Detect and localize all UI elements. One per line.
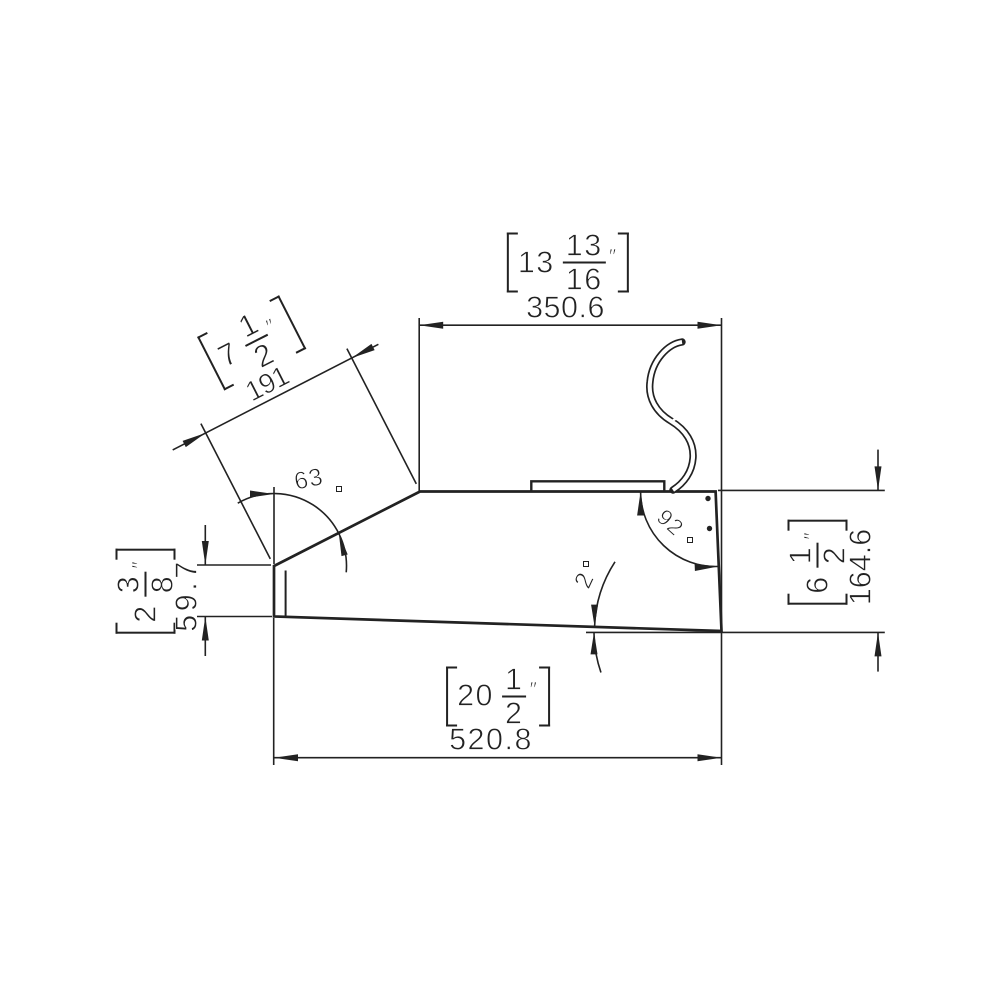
- bottom dimension line 520.8: [274, 757, 722, 759]
- 2 degree label: [569, 568, 600, 592]
- right dimension value 164.6: [843, 529, 878, 605]
- bottom dimension bracket text [20 1/2 in]: [446, 666, 550, 731]
- 63 deg vertical reference ray: [273, 487, 275, 564]
- right dimension bracket text [6 1/2 in]: [787, 519, 852, 604]
- left dim upper extension line: [197, 564, 271, 566]
- top dim left extension line: [418, 318, 420, 491]
- 92 deg arrow at right edge: [695, 564, 719, 571]
- 92 deg arrow at top edge: [637, 492, 644, 516]
- right dim lower extension line / 2 deg reference line: [586, 631, 885, 633]
- left dimension line upper segment: [204, 525, 206, 565]
- right dimension line upper segment: [877, 450, 879, 491]
- screw hole 2: [707, 526, 712, 531]
- right dimension line lower segment: [877, 632, 879, 671]
- diagonal dimension line 191: [173, 344, 379, 450]
- 63 deg arc: [238, 493, 347, 572]
- top dimension value 350.6: [526, 291, 605, 326]
- 92 deg arc: [641, 492, 719, 567]
- left dimension value 59.7: [169, 558, 204, 631]
- top dim right arrow: [698, 322, 722, 329]
- top dimension bracket text [13 13/16 in]: [507, 233, 629, 298]
- 2 deg lower arrow: [591, 632, 598, 654]
- arrowheads: [183, 322, 882, 762]
- bottom dim left arrow: [274, 754, 298, 761]
- right dim lower arrow: [875, 632, 882, 656]
- angle arcs: [238, 492, 719, 673]
- diagonal dim upper arrow: [352, 344, 375, 358]
- dimension lines: [173, 325, 878, 758]
- top dimension line 350.6: [419, 324, 721, 326]
- vent flange on top: [531, 481, 664, 490]
- 63 deg arrow at slant edge: [339, 533, 348, 556]
- bottom dimension value 520.8: [449, 723, 533, 758]
- 2 deg upper arrow: [591, 605, 598, 627]
- bottom dim left extension line: [273, 618, 275, 765]
- left dimension bracket text [2 3/8 in]: [115, 548, 180, 633]
- 63 degree symbol: [336, 486, 342, 492]
- diagonal dim lower arrow: [183, 433, 206, 447]
- left dim lower extension line: [197, 616, 272, 618]
- diagonal dimension value 191: [240, 360, 293, 408]
- diagonal dim extension line from upper vertex: [347, 349, 416, 484]
- 63 degree label: [292, 463, 326, 496]
- hood front lip inner edge: [285, 571, 287, 616]
- power cord: [650, 342, 693, 490]
- right dim upper extension line: [718, 489, 885, 491]
- bottom dim right arrow: [698, 754, 722, 761]
- 2 deg lower leader arc: [594, 632, 601, 672]
- left dim upper arrow: [202, 541, 209, 565]
- right dim upper arrow: [875, 466, 882, 490]
- right vertical extension line: [721, 318, 723, 765]
- 92 degree label: [651, 504, 688, 541]
- left dim lower arrow: [202, 617, 209, 641]
- diagonal dimension bracket text [7 1/2 in]: [197, 295, 309, 395]
- diagonal dim extension line from lower vertex: [201, 424, 270, 559]
- 2 deg upper leader arc: [595, 562, 615, 627]
- left dimension line lower segment: [204, 617, 206, 657]
- top dim left arrow: [419, 322, 443, 329]
- screw hole 1: [705, 496, 710, 501]
- 92 degree symbol: [687, 537, 693, 543]
- hood body outline: [274, 492, 722, 632]
- 2 degree symbol: [583, 561, 589, 567]
- extension lines: [197, 318, 885, 765]
- 63 deg arrow at vertical ray: [250, 491, 274, 498]
